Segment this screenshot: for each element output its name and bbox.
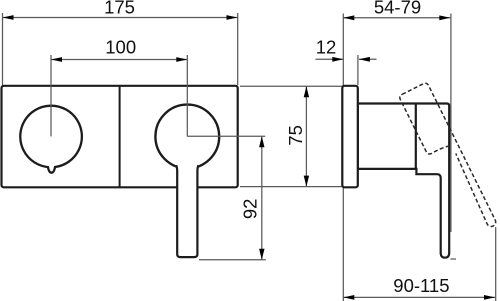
svg-text:100: 100 bbox=[105, 37, 136, 58]
svg-text:75: 75 bbox=[285, 125, 306, 146]
svg-text:90-115: 90-115 bbox=[393, 275, 449, 296]
svg-text:175: 175 bbox=[104, 0, 135, 17]
svg-text:92: 92 bbox=[240, 199, 261, 220]
svg-text:54-79: 54-79 bbox=[374, 0, 421, 17]
svg-text:12: 12 bbox=[316, 37, 337, 58]
